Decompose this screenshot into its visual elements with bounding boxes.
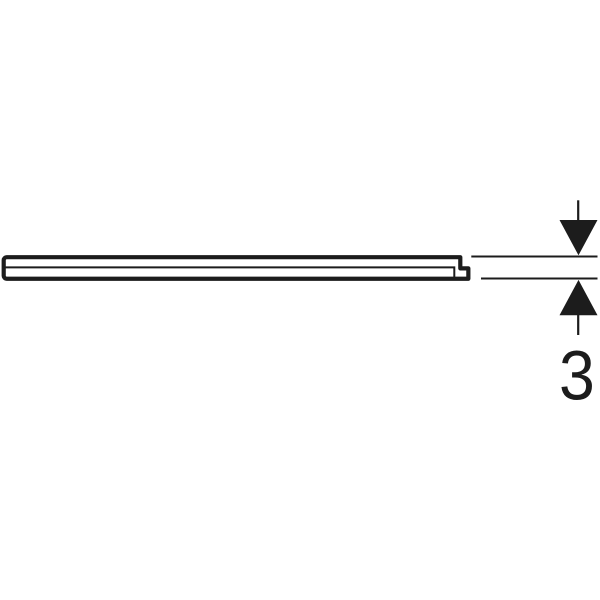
svg-text:3: 3: [559, 337, 595, 415]
